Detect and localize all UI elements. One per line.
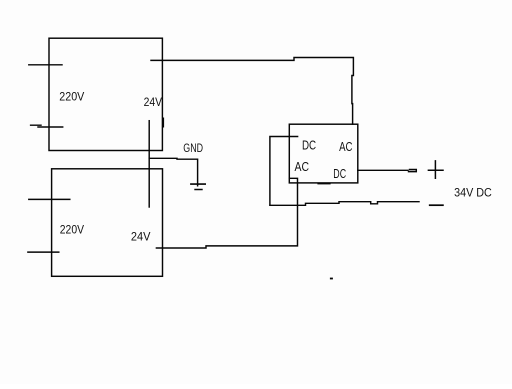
plus output wire [358,169,408,171]
plus terminal symbol [428,161,443,178]
T2 secondary output wire to rectifier bottom [156,178,297,248]
T1 24V lead wire down through T2 [148,121,150,207]
T2 primary input wire bottom [28,251,59,253]
T1 secondary output wire to rectifier [151,58,353,125]
svg-text:34V DC: 34V DC [454,186,492,200]
T1 primary input wire top [29,64,62,66]
transformer T1 box [49,38,162,150]
stub on T1 right edge [162,119,164,127]
svg-text:24V: 24V [144,95,163,109]
minus terminal symbol [430,204,443,206]
transformer T2 box [52,169,163,276]
svg-text:24V: 24V [131,229,151,243]
U1 left AC loop wire [270,137,298,206]
svg-text:GND: GND [183,143,203,155]
svg-text:AC: AC [295,160,310,174]
svg-text:DC: DC [333,167,346,181]
T2 primary input wire top [29,198,70,200]
stray dot [331,278,332,280]
svg-text:220V: 220V [60,223,84,237]
T1 primary input wire bottom [31,125,63,127]
ground symbol [191,184,205,189]
GND wire [149,158,197,186]
svg-text:DC: DC [302,138,316,152]
doubled stroke on U1 bottom edge [318,183,330,185]
svg-text:AC: AC [339,140,352,154]
plus wire end hook [409,170,417,172]
rectifier U1 box [289,124,358,183]
svg-text:220V: 220V [59,89,85,103]
minus output wire [270,202,419,206]
